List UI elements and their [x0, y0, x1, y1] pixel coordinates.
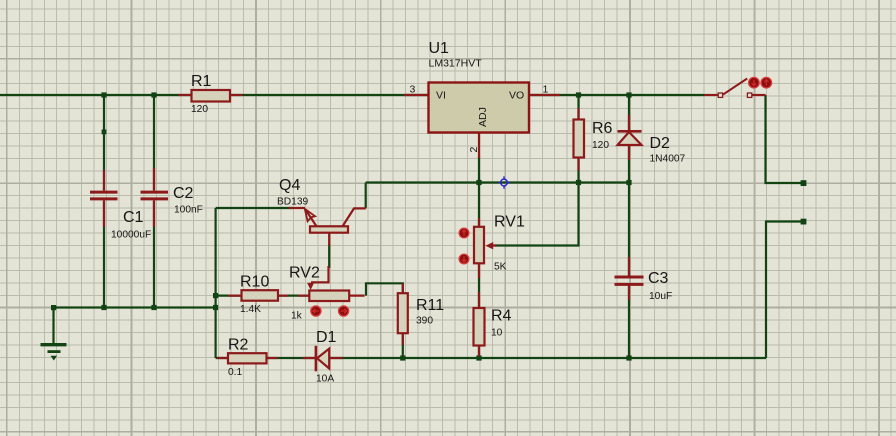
wire Q4 collector riser x=365.7 [365, 183, 367, 209]
svg-text:3: 3 [410, 84, 416, 96]
pin RV2 left [298, 295, 310, 297]
svg-text:BD139: BD139 [277, 197, 308, 208]
pin R1 right [230, 94, 243, 96]
pin R11 top [402, 283, 404, 294]
svg-text:C2: C2 [173, 185, 194, 202]
switch handle up [761, 77, 772, 88]
pin C3 top [628, 257, 630, 276]
wire C2 lower vertical [153, 201, 155, 308]
svg-text:10000uF: 10000uF [111, 230, 151, 241]
terminal J2 [801, 219, 807, 225]
pin switch right [752, 94, 766, 96]
svg-text:R2: R2 [228, 337, 249, 354]
junction mid rail / ADJ [476, 180, 481, 185]
wire D2 chain x=629 [628, 95, 630, 183]
pin switch left [704, 94, 718, 96]
pin U1 VO [529, 94, 561, 96]
junction top rail / R6 [576, 92, 581, 97]
pin R6 top [577, 108, 579, 120]
pin C1 bottom [103, 200, 105, 227]
wire C3 chain upper [628, 183, 630, 277]
svg-text:RV1: RV1 [494, 214, 525, 231]
svg-text:D2: D2 [650, 135, 671, 152]
pin D2 top [628, 115, 630, 131]
wire C1 branch vertical x=104 [103, 95, 105, 190]
svg-text:R4: R4 [491, 308, 512, 325]
wire top rail y=95 [0, 94, 704, 96]
svg-text:LM317HVT: LM317HVT [429, 58, 483, 70]
wire R10 row y=295.6 [216, 295, 309, 297]
terminal J1 [801, 180, 807, 186]
wire RV2 to R11 riser [366, 283, 403, 295]
pin R11 bottom [402, 333, 404, 346]
pin U1 ADJ [478, 133, 480, 158]
wire ground stub [52, 308, 54, 345]
svg-text:1: 1 [543, 84, 549, 96]
svg-text:R11: R11 [416, 297, 444, 314]
RV2 handle right [339, 306, 349, 316]
junction bottom rail / R11 [400, 355, 405, 360]
pin D2 bottom [628, 145, 630, 160]
RV1 handle down [459, 254, 469, 264]
resistor R2 [228, 353, 267, 363]
junction bottom-left / C2 [151, 305, 156, 310]
wire RV1 wiper to riser [494, 183, 579, 246]
svg-text:10uF: 10uF [649, 291, 672, 302]
svg-text:RV2: RV2 [289, 265, 320, 282]
svg-text:1k: 1k [291, 311, 303, 322]
svg-text:VO: VO [509, 90, 524, 102]
resistor R10 [242, 290, 279, 301]
pin R4 bottom [478, 345, 480, 356]
transistor Q2 (Q4) [289, 208, 366, 233]
svg-text:10: 10 [491, 328, 503, 339]
svg-text:C3: C3 [648, 270, 669, 287]
junction mid rail / D2-C3 [626, 180, 631, 185]
pin D1 left [303, 357, 316, 359]
switch SW1 [718, 79, 752, 98]
resistor R11 [398, 293, 408, 333]
pin R10 right [278, 295, 289, 297]
junction bottom-left / ground corner [51, 305, 56, 310]
wire mid rail y=182.5 [366, 181, 629, 183]
ground [41, 345, 67, 360]
svg-text:120: 120 [592, 140, 609, 151]
svg-text:390: 390 [416, 316, 433, 327]
svg-text:U1: U1 [429, 40, 450, 57]
junction bottom-left / C1 [101, 305, 106, 310]
wire R11 bottom [402, 333, 404, 358]
diode D1 [316, 346, 329, 372]
svg-text:C1: C1 [123, 209, 144, 226]
svg-text:Q4: Q4 [279, 177, 300, 194]
resistor R4 [474, 308, 485, 346]
svg-text:R6: R6 [592, 120, 613, 137]
junction top rail / D2 [626, 92, 631, 97]
pin U1 VI [404, 94, 429, 96]
pin R2 left [217, 357, 229, 359]
wire Q4 emitter horizontal y=208 [216, 207, 292, 209]
svg-text:120: 120 [191, 104, 208, 115]
wire bottom-left rail y=307.5 [54, 306, 216, 308]
pin RV1 top [478, 218, 480, 227]
svg-text:D1: D1 [316, 329, 337, 346]
capacitor C2 [141, 192, 169, 199]
svg-text:ADJ: ADJ [477, 107, 489, 127]
svg-text:1N4007: 1N4007 [650, 154, 686, 165]
pin C3 bottom [628, 285, 630, 300]
junction top rail / C1 [101, 92, 106, 97]
pin RV2 right [349, 295, 365, 297]
junction mid rail / R6-wiper riser [576, 180, 581, 185]
pin RV1 bottom [478, 263, 480, 278]
junction bottom rail / R4 [476, 355, 481, 360]
wire bottom rail y=358 [216, 357, 766, 359]
wire ADJ / RV1 / R4 chain x=479 [478, 156, 480, 358]
op-amp U1 regulator body [429, 83, 530, 133]
pin C2 top [153, 168, 155, 191]
potentiometer RV2 [307, 266, 349, 301]
wire left vertical x=215.6 [215, 208, 217, 358]
wire switch to terminal J1 [766, 95, 802, 183]
capacitor C3 [615, 277, 644, 284]
svg-text:0.1: 0.1 [228, 367, 242, 378]
pin C2 bottom [153, 200, 155, 227]
svg-text:R10: R10 [240, 274, 269, 291]
svg-text:100nF: 100nF [174, 205, 203, 216]
resistor R1 [192, 90, 231, 102]
junction bottom-left / left vertical [213, 305, 218, 310]
resistor R6 [574, 120, 585, 158]
svg-text:VI: VI [436, 90, 446, 102]
svg-text:1.4K: 1.4K [240, 304, 261, 315]
diode D2 [618, 131, 642, 145]
junction top rail / C2 [151, 92, 156, 97]
wire C2 branch vertical x=154 [153, 95, 155, 190]
RV1 handle up [459, 228, 469, 238]
pin D1 right [329, 357, 342, 359]
pin R2 right [266, 357, 278, 359]
junction bottom rail / C3 [626, 355, 631, 360]
capacitor C1 [90, 192, 118, 199]
wire right lower vertical to terminal J2 [766, 222, 801, 359]
wire R6 chain x=578.5 [577, 95, 579, 183]
wire C3 chain lower [628, 285, 630, 358]
wire C1 lower vertical [103, 201, 105, 308]
potentiometer RV1 [474, 227, 496, 263]
pin R1 left [179, 94, 193, 96]
svg-text:10A: 10A [316, 374, 334, 385]
pin R4 top [478, 292, 480, 309]
node origin marker (blue) [498, 176, 510, 188]
pin C1 top [103, 170, 105, 191]
svg-text:R1: R1 [191, 73, 212, 90]
svg-text:5K: 5K [494, 262, 507, 273]
pin Q4 base [328, 233, 330, 247]
pin R10 left [228, 295, 242, 297]
switch handle down [749, 77, 760, 88]
wire Q4 base to RV2 wiper [328, 244, 330, 268]
pin R6 bottom [577, 157, 579, 171]
RV2 handle left [311, 306, 321, 316]
svg-text:2: 2 [468, 147, 480, 153]
junction left vertical / R10 row [213, 293, 218, 298]
junction C1 wire joint [102, 130, 107, 135]
